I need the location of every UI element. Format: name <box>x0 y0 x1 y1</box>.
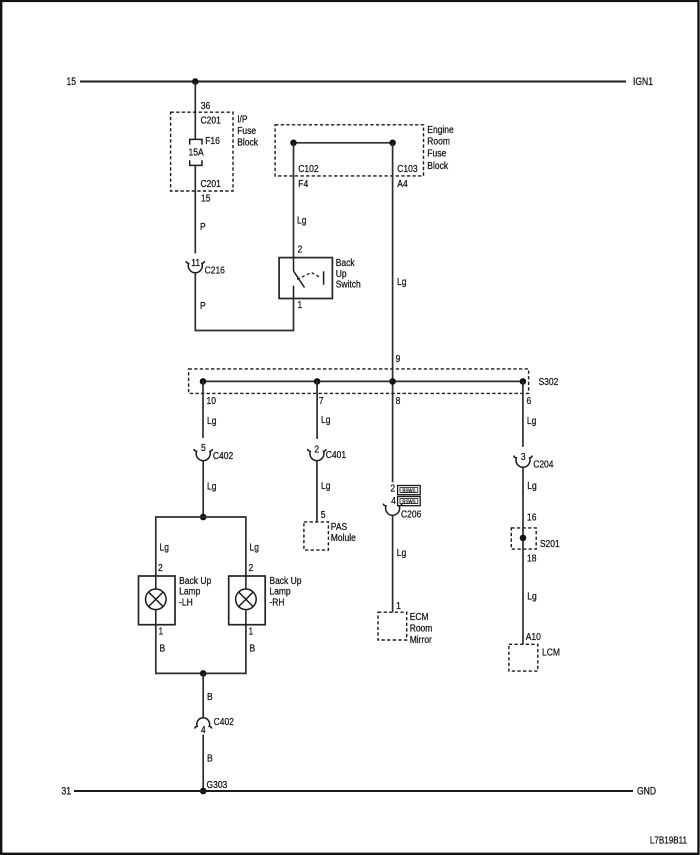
connector C201 label (top) <box>201 115 221 127</box>
pin 5 label <box>321 509 326 521</box>
junction S302 pin7 <box>314 378 321 385</box>
wire color Lg <box>527 415 536 427</box>
pin 18 label <box>527 553 536 565</box>
svg-text:C402: C402 <box>214 716 234 728</box>
fuse F16 label <box>205 135 220 147</box>
node 31 (GND rail label left) <box>61 786 71 798</box>
Engine Room Fuse Block name <box>427 124 453 172</box>
PAS Molule name <box>331 521 356 544</box>
fuse F16 symbol <box>190 139 202 165</box>
svg-text:1: 1 <box>249 626 254 638</box>
wire color Lg <box>207 415 216 427</box>
wire color Lg <box>321 480 330 492</box>
LCM name <box>542 647 560 659</box>
svg-text:36: 36 <box>201 100 210 112</box>
svg-text:Fuse: Fuse <box>427 148 446 160</box>
svg-text:C201: C201 <box>201 178 221 190</box>
svg-text:B: B <box>250 643 256 655</box>
pin 36 label <box>201 100 210 112</box>
svg-text:C216: C216 <box>205 265 225 277</box>
svg-text:B: B <box>207 753 213 765</box>
svg-text:Lg: Lg <box>527 415 536 427</box>
svg-text:G303: G303 <box>207 779 228 791</box>
svg-text:2: 2 <box>158 562 163 574</box>
connector C401 label <box>326 449 346 461</box>
wire color Lg <box>321 414 330 426</box>
pin 1 label (ECM) <box>396 600 401 612</box>
svg-text:ECM: ECM <box>410 611 429 623</box>
pin 6 label <box>527 395 532 407</box>
wire color B (LH) <box>160 643 166 655</box>
svg-text:L7B19B11: L7B19B11 <box>650 835 687 846</box>
svg-text:Fuse: Fuse <box>237 125 256 137</box>
wire color Lg (RH) <box>250 542 259 554</box>
pin 2 label (switch top) <box>298 244 303 256</box>
wire color P <box>200 221 206 233</box>
LCM dashed box <box>509 644 538 671</box>
splice S302 label <box>539 376 559 388</box>
svg-text:Lg: Lg <box>250 542 259 554</box>
pin A10 label <box>526 631 541 643</box>
wire color B <box>207 691 213 703</box>
pin 2 label (RH lamp) <box>249 562 254 574</box>
svg-text:15: 15 <box>201 193 210 205</box>
pin 1 label (LH lamp) <box>159 626 164 638</box>
junction S302 pin8 <box>389 378 396 385</box>
splice S302 dashed box <box>189 369 529 394</box>
svg-text:15A: 15A <box>188 147 204 159</box>
wire C402 to lamp junction <box>202 460 204 517</box>
svg-text:BSWS: BSWS <box>403 488 417 495</box>
PAS module dashed box <box>304 522 329 550</box>
wire engine room internal bus <box>294 142 393 144</box>
wire color B (ground) <box>207 753 213 765</box>
svg-text:7: 7 <box>319 395 324 407</box>
connector C102 label <box>298 163 318 175</box>
pin 2 label <box>314 444 319 456</box>
svg-text:16: 16 <box>527 512 536 524</box>
engine room fuse block dashed box <box>275 125 423 176</box>
svg-text:Lg: Lg <box>297 215 306 227</box>
svg-text:F16: F16 <box>205 135 220 147</box>
lamp RH bulb symbol <box>236 576 257 625</box>
pin 16 label <box>527 512 536 524</box>
wire color Lg (A4 feed) <box>397 276 406 288</box>
svg-text:1: 1 <box>159 626 164 638</box>
pin 1 label (RH lamp) <box>249 626 254 638</box>
connector C402 symbol (bottom) <box>195 718 212 729</box>
svg-text:Molule: Molule <box>331 532 356 544</box>
wire color Lg <box>397 547 406 559</box>
pin 1 label (switch bottom) <box>298 299 303 311</box>
wire color Lg (to LCM) <box>527 591 536 603</box>
RSWS tag <box>398 497 421 506</box>
connector C206 symbol <box>383 504 401 516</box>
pin 11 label <box>191 257 200 269</box>
svg-text:S302: S302 <box>539 376 559 388</box>
diagram code L7B19B11 <box>650 835 687 846</box>
svg-text:Lg: Lg <box>397 276 406 288</box>
svg-text:Lg: Lg <box>321 480 330 492</box>
svg-text:4: 4 <box>391 495 396 507</box>
svg-text:1: 1 <box>298 299 303 311</box>
svg-text:P: P <box>200 300 206 312</box>
ECM room mirror dashed box <box>378 612 407 640</box>
wire GND rail <box>74 790 633 792</box>
svg-text:Mirror: Mirror <box>410 634 433 646</box>
svg-text:C401: C401 <box>326 449 346 461</box>
svg-text:C206: C206 <box>401 509 421 521</box>
junction lamp return <box>200 670 207 677</box>
pin 7 label <box>319 395 324 407</box>
pin A4 label <box>397 178 408 190</box>
I/P fuse block dashed box <box>171 112 233 191</box>
pin F4 label <box>298 178 309 190</box>
svg-text:C201: C201 <box>201 115 221 127</box>
ECM Room Mirror name <box>410 611 433 646</box>
back up lamp RH box <box>229 576 266 625</box>
svg-text:1: 1 <box>396 600 401 612</box>
junction C102 <box>290 140 297 147</box>
wire C402 to G303 <box>202 735 204 791</box>
wire C216 to switch pin 1 (P) <box>195 273 293 331</box>
pin 3 label <box>521 451 526 463</box>
wire from IGN1 rail to fuse F16 <box>194 82 196 140</box>
svg-text:5: 5 <box>321 509 326 521</box>
wire C401 to PAS module <box>316 460 318 522</box>
svg-text:LCM: LCM <box>542 647 560 659</box>
connector C402 symbol (top) <box>194 449 212 461</box>
ground G303 label <box>207 779 228 791</box>
svg-text:S201: S201 <box>540 538 560 550</box>
svg-text:Lg: Lg <box>527 591 536 603</box>
fuse value 15A <box>188 147 204 159</box>
svg-text:B: B <box>160 643 166 655</box>
svg-text:2: 2 <box>314 444 319 456</box>
svg-text:Block: Block <box>237 137 258 149</box>
pin 9 label <box>396 353 401 365</box>
svg-text:5: 5 <box>201 442 206 454</box>
connector C201 label (bottom) <box>201 178 221 190</box>
wire S302 pin7 to C401 <box>316 381 318 439</box>
splice S201 dashed box <box>511 528 536 549</box>
junction C103 <box>389 140 396 147</box>
connector C401 symbol <box>308 449 326 461</box>
pin 2 label (C206) <box>390 483 395 495</box>
wire lamp feed split <box>156 517 246 576</box>
svg-text:F4: F4 <box>298 178 309 190</box>
svg-text:11: 11 <box>191 257 200 269</box>
pin 15 label below fuse block <box>201 193 210 205</box>
back up lamp LH box <box>139 576 176 625</box>
Back Up Lamp -RH name <box>269 575 301 608</box>
svg-text:Lg: Lg <box>207 415 216 427</box>
wire color Lg <box>527 480 536 492</box>
BSWS tag <box>398 486 421 495</box>
connector C402 label (bottom) <box>214 716 234 728</box>
svg-text:Switch: Switch <box>336 279 361 291</box>
wire C206 to ECM room mirror <box>392 515 394 612</box>
wire color P (lower) <box>200 300 206 312</box>
wire IGN1 rail <box>80 80 626 82</box>
svg-text:C103: C103 <box>397 163 417 175</box>
svg-text:Lg: Lg <box>160 542 169 554</box>
back up switch box <box>279 258 332 299</box>
connector C216 label <box>205 265 225 277</box>
lamp LH bulb symbol <box>146 576 167 625</box>
svg-text:15: 15 <box>66 76 76 88</box>
wire C103/A4 down through S302 to C206 <box>392 143 394 483</box>
svg-text:A4: A4 <box>397 178 408 190</box>
svg-text:I/P: I/P <box>237 114 247 126</box>
svg-text:IGN1: IGN1 <box>633 76 653 88</box>
svg-text:2: 2 <box>249 562 254 574</box>
svg-text:10: 10 <box>207 395 216 407</box>
svg-text:3: 3 <box>521 451 526 463</box>
wire C102/F4 down to back up switch <box>293 143 295 258</box>
junction S201 <box>520 535 527 542</box>
wire color Lg (LH) <box>160 542 169 554</box>
wire color Lg <box>207 481 216 493</box>
svg-text:Lg: Lg <box>397 547 406 559</box>
junction G303 <box>200 788 207 795</box>
svg-text:18: 18 <box>527 553 536 565</box>
svg-text:-RH: -RH <box>269 597 284 609</box>
svg-text:9: 9 <box>396 353 401 365</box>
svg-text:Engine: Engine <box>427 124 453 136</box>
svg-text:RSWS: RSWS <box>402 499 416 506</box>
junction S302 pin6 <box>520 378 527 385</box>
wire fuse to C216 <box>194 165 196 253</box>
pin 8 label <box>396 395 401 407</box>
svg-text:P: P <box>200 221 206 233</box>
wire S302 pin6 to C204 <box>522 381 524 446</box>
pin 2 label (LH lamp) <box>158 562 163 574</box>
svg-text:Lg: Lg <box>321 414 330 426</box>
wire lamp returns join <box>156 625 246 674</box>
node 15 (IGN1 rail label left) <box>66 76 76 88</box>
svg-text:C204: C204 <box>533 459 554 471</box>
switch blade and contacts <box>294 258 324 299</box>
connector C204 label <box>533 459 554 471</box>
svg-text:C402: C402 <box>213 450 233 462</box>
pin 4 label <box>201 724 206 736</box>
svg-text:B: B <box>207 691 213 703</box>
svg-text:31: 31 <box>61 786 71 798</box>
pin 5 label <box>201 442 206 454</box>
connector C204 symbol <box>514 456 532 468</box>
connector C402 label <box>213 450 233 462</box>
junction on IGN1 rail <box>192 78 199 85</box>
svg-text:2: 2 <box>298 244 303 256</box>
connector C103 label <box>397 163 417 175</box>
pin 10 label <box>207 395 216 407</box>
svg-text:Block: Block <box>427 160 448 172</box>
wire S302 pin10 to C402 <box>202 381 204 438</box>
junction lamp feed <box>200 514 207 521</box>
svg-text:8: 8 <box>396 395 401 407</box>
wire color B (RH) <box>250 643 256 655</box>
connector C216 symbol <box>186 261 204 273</box>
node IGN1 label <box>633 76 653 88</box>
junction S302 pin10 <box>200 378 207 385</box>
wire S302 bus <box>203 380 523 382</box>
wire C204 through S201 to LCM <box>522 467 524 644</box>
wire color Lg <box>297 215 306 227</box>
svg-text:A10: A10 <box>526 631 541 643</box>
pin 4 label (C206) <box>391 495 396 507</box>
splice S201 label <box>540 538 560 550</box>
svg-text:2: 2 <box>390 483 395 495</box>
svg-text:Lg: Lg <box>207 481 216 493</box>
svg-text:6: 6 <box>527 395 532 407</box>
connector C206 label <box>401 509 421 521</box>
wire junction to C402 (B) <box>202 673 204 717</box>
svg-text:Room: Room <box>427 136 450 148</box>
svg-text:Lg: Lg <box>527 480 536 492</box>
svg-text:C102: C102 <box>298 163 318 175</box>
node GND label <box>637 786 656 798</box>
Back Up Switch name <box>336 257 361 291</box>
Back Up Lamp -LH name <box>179 575 211 608</box>
svg-text:GND: GND <box>637 786 656 798</box>
I/P Fuse Block name <box>237 114 258 149</box>
svg-text:-LH: -LH <box>179 597 193 609</box>
